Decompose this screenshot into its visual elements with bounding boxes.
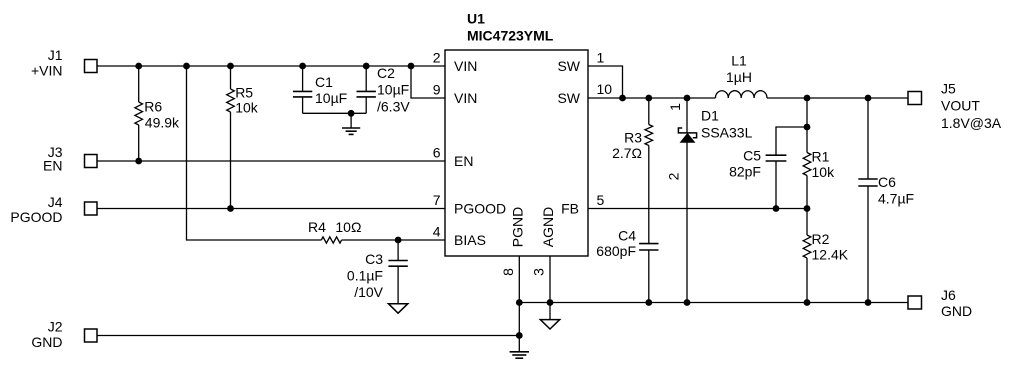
wire R5 top bbox=[230, 66, 232, 89]
junction gnd rail/AGND bbox=[547, 299, 554, 306]
connector squares bbox=[85, 60, 922, 343]
wire R5 bottom to PGOOD bbox=[230, 112, 232, 209]
wire D1 anode to ground rail bbox=[686, 142, 688, 303]
wire C1 top bbox=[302, 66, 304, 91]
capacitor C1 bbox=[293, 91, 312, 97]
connector J5 pad bbox=[908, 92, 922, 105]
junction C1C2 ground bbox=[348, 110, 355, 117]
svg-text:4.7µF: 4.7µF bbox=[878, 191, 914, 207]
svg-text:+VIN: +VIN bbox=[31, 63, 63, 79]
svg-text:1µH: 1µH bbox=[726, 69, 752, 85]
junction +VIN/R6 bbox=[135, 63, 142, 70]
wire J2 GND bbox=[97, 335, 519, 337]
junction R1/C5 tap bbox=[804, 124, 811, 131]
wire C1-C2 bottom link bbox=[303, 112, 367, 114]
wire C2 bottom bbox=[365, 97, 367, 113]
wire EN J3 to pin 6 bbox=[97, 160, 445, 162]
wire C6 top bbox=[867, 98, 869, 179]
svg-text:R4: R4 bbox=[308, 219, 326, 235]
resistor R4 bbox=[321, 237, 341, 243]
svg-text:EN: EN bbox=[43, 158, 62, 174]
wire C5 bottom to FB bbox=[775, 161, 777, 209]
resistor R1 bbox=[803, 153, 811, 176]
junction +VIN/C1 bbox=[299, 63, 306, 70]
junction VOUT/C6 bbox=[865, 95, 872, 102]
ground triangle below C3 bbox=[388, 304, 407, 314]
svg-text:10: 10 bbox=[597, 81, 613, 97]
svg-text:82pF: 82pF bbox=[729, 164, 761, 180]
svg-text:680pF: 680pF bbox=[596, 243, 636, 259]
svg-text:PGOOD: PGOOD bbox=[10, 209, 62, 225]
connector J3 pad bbox=[85, 155, 98, 168]
connector J4 pad bbox=[85, 202, 98, 215]
svg-text:SSA33L: SSA33L bbox=[701, 125, 753, 141]
wire L1 to J5 VOUT bbox=[767, 97, 908, 99]
capacitor C3 bbox=[388, 261, 407, 267]
wire C1 bottom bbox=[302, 97, 304, 113]
svg-text:1: 1 bbox=[597, 50, 605, 66]
wire pin 9 jog from +VIN rail bbox=[411, 66, 445, 98]
svg-text:R3: R3 bbox=[624, 130, 642, 146]
svg-text:7: 7 bbox=[433, 192, 441, 208]
junction BIAS/C3 bbox=[395, 237, 402, 244]
svg-text:1: 1 bbox=[667, 103, 683, 111]
wire C5 branch top bbox=[776, 127, 807, 155]
svg-text:10k: 10k bbox=[812, 164, 836, 180]
svg-text:/10V: /10V bbox=[354, 284, 383, 300]
junction +VIN/pin9 bbox=[408, 63, 415, 70]
svg-text:SW: SW bbox=[557, 58, 580, 74]
wire R2 bottom to ground rail bbox=[806, 258, 808, 303]
connector J6 pad bbox=[908, 296, 922, 309]
svg-text:U1: U1 bbox=[467, 11, 485, 27]
junction FB/C5 bbox=[773, 205, 780, 212]
svg-text:10µF: 10µF bbox=[377, 82, 409, 98]
svg-text:BIAS: BIAS bbox=[454, 232, 486, 248]
svg-text:6: 6 bbox=[433, 145, 441, 161]
svg-text:EN: EN bbox=[454, 153, 473, 169]
svg-text:3: 3 bbox=[531, 268, 547, 276]
wire PGND pin 8 bbox=[518, 256, 520, 352]
svg-text:10µF: 10µF bbox=[315, 90, 347, 106]
junction J2/PGND bbox=[516, 332, 523, 339]
svg-text:FB: FB bbox=[561, 201, 579, 217]
junction +VIN/R5 bbox=[227, 63, 234, 70]
svg-text:9: 9 bbox=[433, 82, 441, 98]
svg-text:L1: L1 bbox=[731, 53, 747, 69]
wire R3 top bbox=[648, 98, 650, 125]
wire pin 1 jog to SW node bbox=[588, 66, 623, 98]
op-amp U1 chip body MIC4723YML bbox=[445, 50, 588, 256]
svg-text:4: 4 bbox=[433, 224, 441, 240]
junction PGOOD/R5 bbox=[227, 205, 234, 212]
svg-text:R1: R1 bbox=[812, 149, 830, 165]
svg-text:0.1µF: 0.1µF bbox=[347, 268, 383, 284]
ground symbol below J2 junction bbox=[510, 352, 529, 358]
svg-text:C4: C4 bbox=[618, 228, 636, 244]
capacitor C4 bbox=[639, 244, 658, 250]
wire PGOOD J4 to pin 7 bbox=[97, 208, 445, 210]
resistor R2 bbox=[803, 235, 811, 258]
svg-text:/6.3V: /6.3V bbox=[377, 99, 410, 115]
svg-text:PGOOD: PGOOD bbox=[454, 201, 506, 217]
junction VOUT/R1 bbox=[804, 95, 811, 102]
svg-text:C6: C6 bbox=[878, 174, 896, 190]
svg-text:D1: D1 bbox=[701, 108, 719, 124]
wire BIAS vertical from +VIN rail bbox=[187, 66, 322, 240]
svg-text:2: 2 bbox=[433, 50, 441, 66]
svg-text:R5: R5 bbox=[235, 85, 253, 101]
svg-text:12.4K: 12.4K bbox=[812, 247, 849, 263]
svg-text:AGND: AGND bbox=[540, 207, 556, 247]
junction gnd rail/C6 bbox=[865, 299, 872, 306]
wire R6 top bbox=[138, 66, 140, 102]
svg-text:GND: GND bbox=[941, 303, 972, 319]
svg-text:10k: 10k bbox=[235, 100, 259, 116]
svg-text:2: 2 bbox=[666, 172, 682, 180]
svg-text:VOUT: VOUT bbox=[941, 98, 980, 114]
wire BIAS to pin 4 bbox=[342, 239, 445, 241]
junction +VIN/BIAS vert bbox=[183, 63, 190, 70]
resistor R6 bbox=[135, 102, 143, 125]
wire C3 top bbox=[397, 240, 399, 261]
wire R6 bottom to EN bbox=[138, 125, 140, 161]
junction +VIN/C2 bbox=[363, 63, 370, 70]
wire R2 top bbox=[806, 209, 808, 236]
resistor R5 bbox=[227, 89, 235, 112]
svg-text:5: 5 bbox=[597, 192, 605, 208]
junction EN/R6 bbox=[135, 158, 142, 165]
svg-text:8: 8 bbox=[500, 268, 516, 276]
wire +VIN rail J1 to pin 2 bbox=[97, 65, 445, 67]
capacitor C5 bbox=[766, 155, 787, 161]
inductor L1 bbox=[715, 91, 767, 98]
svg-text:J1: J1 bbox=[48, 47, 63, 63]
svg-text:J4: J4 bbox=[48, 194, 63, 210]
capacitor C2 bbox=[357, 91, 376, 97]
svg-text:49.9k: 49.9k bbox=[145, 115, 180, 131]
junction gnd rail/PGND bbox=[516, 299, 523, 306]
wire R1 bottom to FB bbox=[806, 176, 808, 209]
junction gnd rail/R2 bbox=[804, 299, 811, 306]
ground symbol below C1/C2 bbox=[342, 113, 360, 134]
resistor R3 bbox=[645, 125, 653, 146]
svg-text:R6: R6 bbox=[144, 99, 162, 115]
ground triangle AGND bbox=[540, 320, 559, 329]
junction SW/R3 bbox=[645, 95, 652, 102]
wire R1 top bbox=[806, 98, 808, 153]
junction SW pin1 jog bbox=[619, 95, 626, 102]
wire ground rail to J6 bbox=[519, 302, 908, 304]
svg-text:2.7Ω: 2.7Ω bbox=[612, 145, 642, 161]
wire FB pin 5 bbox=[588, 208, 807, 210]
svg-text:GND: GND bbox=[31, 334, 62, 350]
wire C3 bottom bbox=[397, 266, 399, 304]
svg-text:C5: C5 bbox=[743, 148, 761, 164]
junction gnd rail/D1 bbox=[684, 299, 691, 306]
wire D1 cathode bbox=[686, 98, 688, 133]
capacitor C6 bbox=[858, 179, 877, 186]
junction gnd rail/C4 bbox=[645, 299, 652, 306]
svg-text:VIN: VIN bbox=[454, 90, 477, 106]
svg-text:C2: C2 bbox=[377, 65, 395, 81]
connector J1 pad bbox=[85, 60, 98, 73]
wire AGND pin 3 bbox=[549, 256, 551, 320]
svg-text:J2: J2 bbox=[48, 319, 63, 335]
wire C4 bottom bbox=[648, 250, 650, 303]
svg-text:C1: C1 bbox=[315, 74, 333, 90]
junction FB/R1/R2 bbox=[804, 205, 811, 212]
svg-text:VIN: VIN bbox=[454, 58, 477, 74]
connector J2 pad bbox=[85, 329, 98, 342]
wire R3 to C4 bbox=[648, 146, 650, 244]
svg-text:1.8V@3A: 1.8V@3A bbox=[941, 115, 1002, 131]
diode D1 schottky bbox=[678, 128, 696, 142]
junction SW/D1 bbox=[684, 95, 691, 102]
svg-text:PGND: PGND bbox=[510, 207, 526, 247]
wire C6 bottom bbox=[867, 186, 869, 303]
wire C2 top bbox=[365, 66, 367, 91]
svg-text:J5: J5 bbox=[941, 81, 956, 97]
svg-text:R2: R2 bbox=[812, 231, 830, 247]
svg-text:J6: J6 bbox=[941, 287, 956, 303]
svg-text:SW: SW bbox=[557, 90, 580, 106]
svg-text:MIC4723YML: MIC4723YML bbox=[467, 28, 554, 44]
svg-text:C3: C3 bbox=[365, 251, 383, 267]
wire SW rail pin 10 to L1 bbox=[588, 97, 715, 99]
svg-text:10Ω: 10Ω bbox=[335, 219, 361, 235]
